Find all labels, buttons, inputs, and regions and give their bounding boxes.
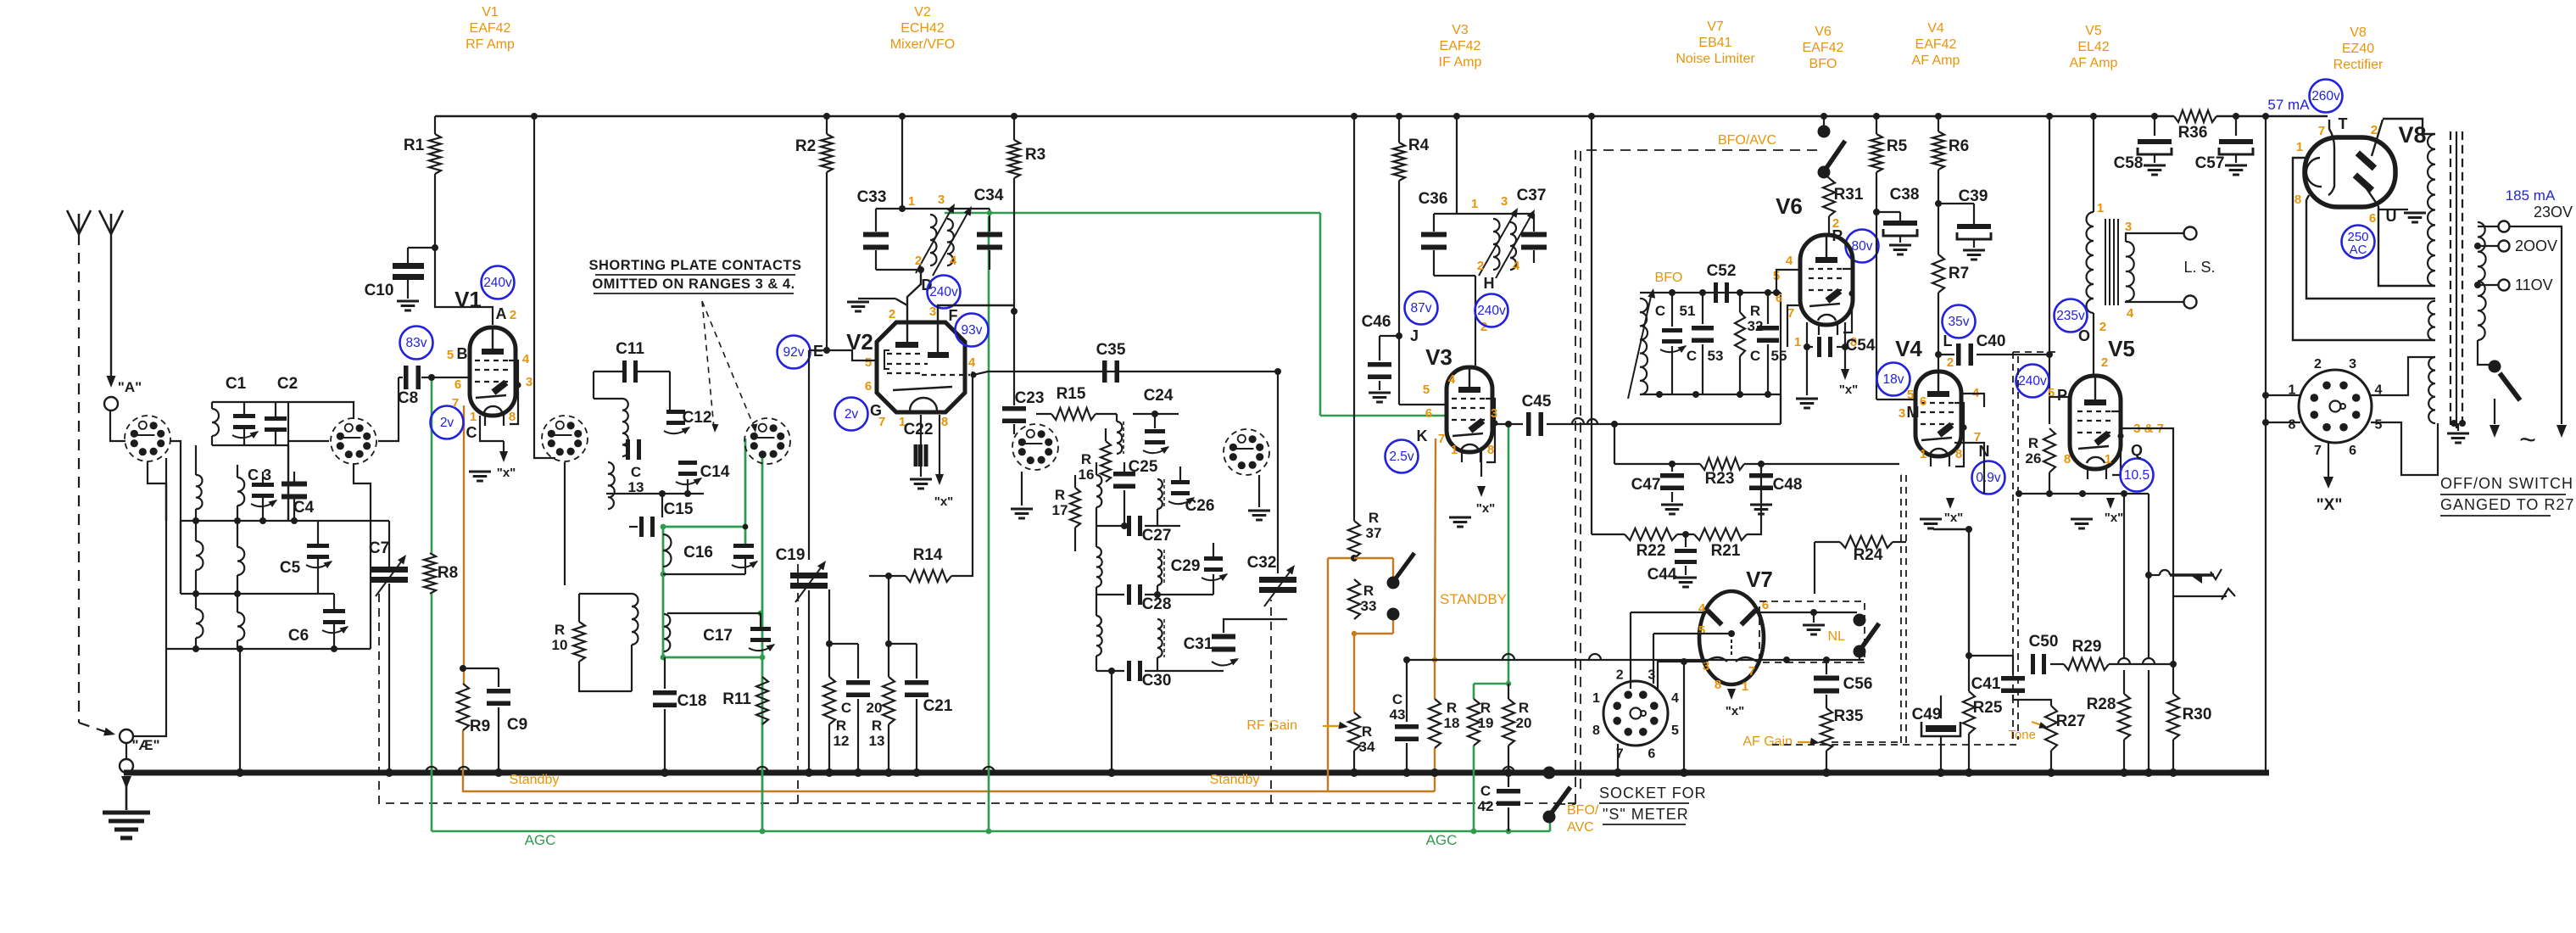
resistor R18 [1429,699,1459,777]
capacitor C51 trimmer [1655,293,1696,394]
svg-text:L: L [1943,332,1953,349]
svg-text:R21: R21 [1711,542,1741,560]
pin labels V6 [1773,254,1857,349]
svg-text:34: 34 [1359,739,1375,755]
resistor R12 [823,640,849,777]
svg-text:C: C [1655,303,1665,319]
resistor R27 pot [2008,695,2085,777]
svg-text:C26: C26 [1185,497,1215,515]
svg-text:8: 8 [2064,452,2071,466]
svg-text:C9: C9 [507,716,527,734]
svg-text:18v: 18v [1883,372,1904,387]
svg-text:K: K [1417,427,1428,444]
svg-text:R: R [1362,723,1372,740]
switch BFO/AVC bottom [1543,767,1599,835]
svg-text:C33: C33 [857,188,887,206]
capacitor C1 [226,375,259,445]
wire left box verticals [166,445,288,594]
svg-text:R: R [1081,451,1091,467]
svg-text:V2: V2 [914,5,931,20]
capacitor C18 [653,657,706,777]
resistor R9 [457,684,490,735]
svg-text:R: R [1480,700,1491,716]
svg-text:OMITTED ON RANGES 3 & 4.: OMITTED ON RANGES 3 & 4. [592,277,795,292]
svg-text:STANDBY: STANDBY [1440,591,1507,607]
svg-text:RF Amp: RF Amp [466,37,515,52]
svg-text:43: 43 [1390,707,1406,723]
capacitor C53 [1687,293,1724,394]
wire socket pin1 [2266,394,2300,396]
wire C19 drop [808,350,810,560]
svg-text:R28: R28 [2087,696,2116,713]
wire antenna lead [107,234,116,388]
svg-text:NL: NL [1828,629,1846,644]
svg-text:AGC: AGC [1426,832,1458,848]
svg-text:"x": "x" [1476,501,1496,516]
coil L15 [1096,526,1102,595]
headphone jack [2144,494,2235,777]
svg-text:R22: R22 [1636,542,1666,560]
wire row y614 [181,517,318,524]
resistor R37 [1348,510,1381,558]
wire V7 cathode X [1726,689,1745,718]
svg-text:EB41: EB41 [1698,36,1731,50]
svg-text:C57: C57 [2195,154,2225,172]
resistor R1 [404,113,538,248]
svg-text:V5: V5 [2085,24,2102,38]
svg-text:C38: C38 [1890,186,1920,204]
svg-text:C: C [1480,783,1491,799]
wire screen drop x630 [534,116,555,458]
capacitor C40 [1935,332,2049,370]
wire rail to V8 [2383,119,2435,134]
svg-text:57 mA: 57 mA [2267,97,2310,113]
svg-text:C56: C56 [1843,675,1873,693]
svg-text:C41: C41 [1971,675,2001,693]
svg-text:4: 4 [522,352,530,366]
svg-text:3: 3 [2125,220,2132,234]
svg-text:0.9v: 0.9v [1976,471,2001,485]
svg-text:T: T [2339,115,2348,132]
node H [1475,275,1495,366]
resistor R30 [2167,596,2211,777]
svg-text:C6: C6 [288,627,309,645]
resistor R29 tone [2064,638,2177,670]
svg-text:R36: R36 [2178,124,2208,142]
capacitor C13 [626,439,644,495]
svg-text:35v: 35v [1949,315,1970,329]
svg-text:1: 1 [2097,201,2104,215]
coil L5 [237,521,244,594]
svg-text:4: 4 [2127,306,2134,321]
svg-text:5: 5 [865,355,872,370]
resistor R16 [1079,428,1111,483]
tube V3 EAF42 [1425,344,1498,462]
antenna symbol 1 [67,210,91,234]
label 57mA [2267,97,2310,113]
svg-text:C: C [1750,348,1760,364]
svg-text:80v: 80v [1852,239,1873,254]
svg-text:6: 6 [454,377,461,392]
capacitor C30 [1096,661,1224,777]
svg-text:1: 1 [1794,335,1801,349]
label V1 top [466,5,515,52]
svg-text:6: 6 [1762,598,1769,612]
power transformer T5 HV [2428,134,2435,286]
wire V5 cathode X [2071,498,2123,528]
resistor R34 RF gain pot [1246,712,1375,777]
svg-text:C58: C58 [2114,154,2144,172]
capacitor C27 [1096,516,1180,545]
label 185mA [2506,187,2556,204]
svg-text:V6: V6 [1815,25,1832,39]
pin labels V5 [2064,422,2164,466]
svg-text:2.5v: 2.5v [1389,450,1414,464]
wire socket pin4 [2371,357,2435,395]
tube V1 EAF42 [454,287,521,426]
svg-text:R15: R15 [1057,385,1086,403]
resistor R31 [1823,172,1864,244]
svg-text:1: 1 [470,410,477,424]
svg-text:C37: C37 [1517,187,1547,204]
wire wafer1 leads [133,441,181,736]
svg-text:7: 7 [2314,444,2322,458]
svg-text:R: R [2028,435,2038,451]
svg-text:8: 8 [1487,443,1494,457]
svg-text:7: 7 [452,396,459,411]
svg-text:GANGED TO R27: GANGED TO R27 [2440,496,2574,513]
wire T4 to V5 [2093,313,2094,376]
wire AGC bus (green) [432,830,1550,833]
voltage 240v V3 [1475,294,1508,327]
svg-text:2: 2 [2314,357,2322,372]
svg-text:10.5: 10.5 [2124,468,2149,483]
wire bus hops [426,767,1514,773]
svg-text:O: O [2078,327,2090,344]
svg-text:42: 42 [1478,798,1494,814]
note off/on switch [2440,475,2574,516]
svg-text:"x": "x" [1839,383,1859,397]
svg-text:11OV: 11OV [2515,277,2553,293]
svg-text:53: 53 [1708,348,1724,364]
svg-text:BFO/AVC: BFO/AVC [1718,133,1776,148]
svg-text:R35: R35 [1834,707,1864,725]
svg-text:2: 2 [2101,355,2108,370]
svg-text:C18: C18 [677,692,707,710]
svg-text:1: 1 [2296,140,2303,154]
ground NL [1803,612,1825,634]
svg-text:8: 8 [2294,193,2301,207]
svg-text:C: C [1392,691,1402,707]
svg-text:185 mA: 185 mA [2506,187,2556,204]
svg-text:R31: R31 [1834,186,1864,204]
wire screen drop x1597 [1351,113,1358,521]
svg-text:"x": "x" [934,494,954,509]
node AE terminal [120,729,160,773]
svg-text:"x": "x" [2105,511,2124,525]
svg-text:V3: V3 [1452,23,1469,37]
dashed box NL [1759,475,1901,662]
svg-text:C35: C35 [1096,341,1126,359]
svg-text:C50: C50 [2029,633,2059,651]
coil L1 primary [212,402,219,445]
capacitor C46 [1362,313,1419,402]
wire standby orange V1 pin7 [463,405,465,684]
svg-text:C8: C8 [398,389,418,407]
label Standby mid [1210,773,1260,787]
svg-text:C45: C45 [1522,393,1552,411]
svg-text:C: C [466,424,477,441]
capacitor C31 [1184,619,1287,666]
svg-text:C52: C52 [1707,262,1737,280]
svg-text:3: 3 [929,304,936,319]
svg-text:V1: V1 [454,287,482,312]
svg-text:R8: R8 [438,564,458,582]
svg-text:V5: V5 [2108,336,2135,361]
svg-text:C22: C22 [904,421,934,439]
svg-text:Mixer/VFO: Mixer/VFO [890,37,955,52]
wire V3 pin5 [1399,404,1447,405]
note socket for S meter [1599,785,1707,824]
capacitor C49 [1912,696,1960,777]
power transformer primary [2478,222,2486,340]
capacitor C15 [629,490,694,537]
wire drop x2672 [2262,113,2269,771]
svg-text:P: P [2057,387,2067,404]
coil L13 [1096,462,1101,526]
svg-text:C47: C47 [1631,476,1661,494]
pin labels V3 [1417,372,1498,457]
node T [2339,115,2348,132]
resistor R13 [869,573,895,777]
capacitor C14 [606,461,730,497]
coil L7 [237,594,244,649]
svg-text:3: 3 [2349,357,2356,372]
svg-text:C11: C11 [616,340,644,358]
capacitor C26 trimmer [1168,466,1214,515]
capacitor C41 [1969,656,2025,693]
coil L18 ift [1157,619,1164,671]
resistor R15 [1036,385,1117,420]
svg-text:8: 8 [2289,418,2296,433]
svg-text:~: ~ [2519,424,2536,456]
svg-text:R1: R1 [404,137,425,154]
voltage 2v V1 [431,406,464,439]
svg-text:R: R [872,718,882,734]
svg-text:260v: 260v [2311,89,2340,103]
voltage 240v V1 [482,266,515,299]
svg-text:R: R [836,718,846,734]
svg-text:4: 4 [1698,601,1706,616]
resistor R36 [2174,110,2216,142]
label V3 top [1439,23,1482,70]
capacitor C58 [2114,113,2172,175]
svg-text:4: 4 [968,355,976,370]
tube V2 ECH42 octagon [846,322,977,412]
capacitor C29 trimmer [1171,543,1228,595]
wire row y700 [181,590,334,597]
label V4 top [1912,21,1960,68]
svg-text:BFO/: BFO/ [1567,803,1599,818]
svg-text:R: R [1369,510,1379,526]
capacitor C38 [1873,186,1919,254]
capacitor C52 [1707,262,1737,303]
svg-text:1: 1 [2105,452,2111,466]
svg-text:83v: 83v [406,336,427,350]
resistor R4 [1393,113,1430,405]
svg-text:R24: R24 [1854,546,1883,564]
svg-text:240v: 240v [1477,304,1506,318]
dashed box AF [1772,352,2056,745]
capacitor C57 [2195,113,2253,175]
voltage 92v [778,336,824,369]
capacitor C17 [667,613,775,651]
tube V5 EL42 [2070,336,2135,479]
label 110V [2515,277,2553,293]
capacitor C6 [288,594,348,649]
voltage 235v [2055,299,2109,371]
wire V8 socket cathode X [2317,443,2343,514]
svg-text:8: 8 [941,415,948,429]
capacitor C33 [857,188,921,270]
wire AGC green V1 drop [431,377,433,831]
svg-text:"S" METER: "S" METER [1603,806,1689,823]
resistor R35 [1820,695,1864,777]
coil BFO L19 [1628,288,1655,399]
label Standby left [510,773,560,787]
svg-text:240v: 240v [483,276,512,290]
IF transformer T2 [1117,414,1124,454]
svg-text:2v: 2v [440,416,454,430]
label V5 top [2070,24,2118,70]
pin labels V1 [447,305,532,441]
coil L11 [664,614,670,651]
wire V7 pin3-8 [1658,658,1706,689]
svg-text:93v: 93v [962,323,983,338]
capacitor C55 [1750,289,1787,394]
svg-text:C30: C30 [1142,672,1172,690]
svg-text:R9: R9 [470,718,490,735]
wire HT+ rail top [435,115,2328,117]
wire AGC green osc link [945,213,1447,416]
svg-text:C32: C32 [1247,554,1277,572]
wire V6 cathode X [1839,347,1859,397]
svg-text:C36: C36 [1419,190,1448,208]
svg-text:51: 51 [1680,303,1696,319]
svg-text:2: 2 [1477,259,1484,273]
speaker terminals LS [2126,227,2216,309]
svg-text:4: 4 [1448,372,1456,387]
socket S-meter [1592,662,1688,777]
ground transformer [2447,420,2469,443]
ground wafer S2b [1248,475,1270,520]
svg-text:8: 8 [509,410,516,424]
capacitor C43 [1390,656,1419,777]
svg-text:RF Gain: RF Gain [1246,718,1297,733]
svg-text:1: 1 [1592,691,1600,706]
svg-text:EL42: EL42 [2077,40,2109,54]
svg-text:R29: R29 [2072,638,2102,656]
wire V2 cathode X [934,415,954,509]
ground V8 CT [2378,206,2426,237]
svg-text:V8: V8 [2350,25,2367,40]
svg-text:C24: C24 [1144,387,1174,405]
wire NL bottom [1859,651,1860,660]
resistor R19 [1468,699,1493,746]
svg-text:6: 6 [1920,394,1926,409]
capacitor C9 [460,665,527,777]
svg-text:7: 7 [878,415,885,429]
svg-text:C7: C7 [369,539,389,557]
svg-text:20: 20 [1516,715,1532,731]
voltage 87v [1405,292,1438,325]
coil L12 [632,594,638,691]
svg-text:V7: V7 [1707,20,1724,34]
wire HT drop x1877 [1588,113,1595,534]
capacitor C47 [1631,464,1684,514]
svg-text:"x": "x" [1944,511,1964,525]
wire V7 pin4 [1631,612,1709,689]
label V8 top [2333,25,2384,72]
capacitor C4 [282,472,315,521]
wire V8 fil left [2293,158,2435,340]
capacitor C25 [1113,458,1158,526]
svg-text:R3: R3 [1025,146,1045,164]
svg-text:5: 5 [2048,386,2055,400]
svg-text:6: 6 [1648,747,1655,762]
svg-text:6: 6 [865,379,872,394]
ground C10 [397,301,419,310]
wire mains taps [2474,221,2510,291]
switch wafer S1a [125,416,170,461]
svg-text:R30: R30 [2183,706,2212,723]
svg-text:AC: AC [2350,243,2367,257]
wire standby bus (orange) [463,730,1435,791]
svg-text:R11: R11 [722,690,751,708]
svg-text:AVC: AVC [1567,820,1594,835]
svg-text:BFO: BFO [1809,57,1837,71]
resistor R11 [722,677,768,724]
tube V6 EAF42 [1776,193,1855,335]
voltage 260v [2310,80,2343,113]
svg-text:3: 3 [938,193,945,207]
svg-text:C40: C40 [1977,332,2006,350]
svg-text:3: 3 [1491,406,1497,421]
label mains sine [2519,424,2536,456]
wire V8 fil right [2306,195,2435,299]
svg-text:ECH42: ECH42 [900,21,945,36]
IF transformer T3 [1457,194,1535,278]
svg-text:C46: C46 [1362,313,1391,331]
svg-text:2: 2 [1616,668,1624,683]
svg-text:V6: V6 [1776,193,1803,219]
svg-text:SHORTING PLATE CONTACTS: SHORTING PLATE CONTACTS [588,258,801,273]
switch wafer S1c [542,416,588,461]
svg-text:2: 2 [1947,355,1954,370]
label 230V [2534,204,2573,221]
ground chassis AE [103,776,150,838]
svg-text:Noise Limiter: Noise Limiter [1676,52,1755,66]
svg-text:C12: C12 [683,409,712,427]
svg-text:26: 26 [2026,450,2042,466]
tube V7 EB41 [1699,567,1773,684]
capacitor C12 [664,399,711,434]
svg-text:"x": "x" [497,466,516,480]
capacitor C7 tuning [318,521,408,777]
wire orange standby feed [1328,555,1393,791]
voltage 18v [1877,363,1910,396]
coil L4 [196,521,204,594]
